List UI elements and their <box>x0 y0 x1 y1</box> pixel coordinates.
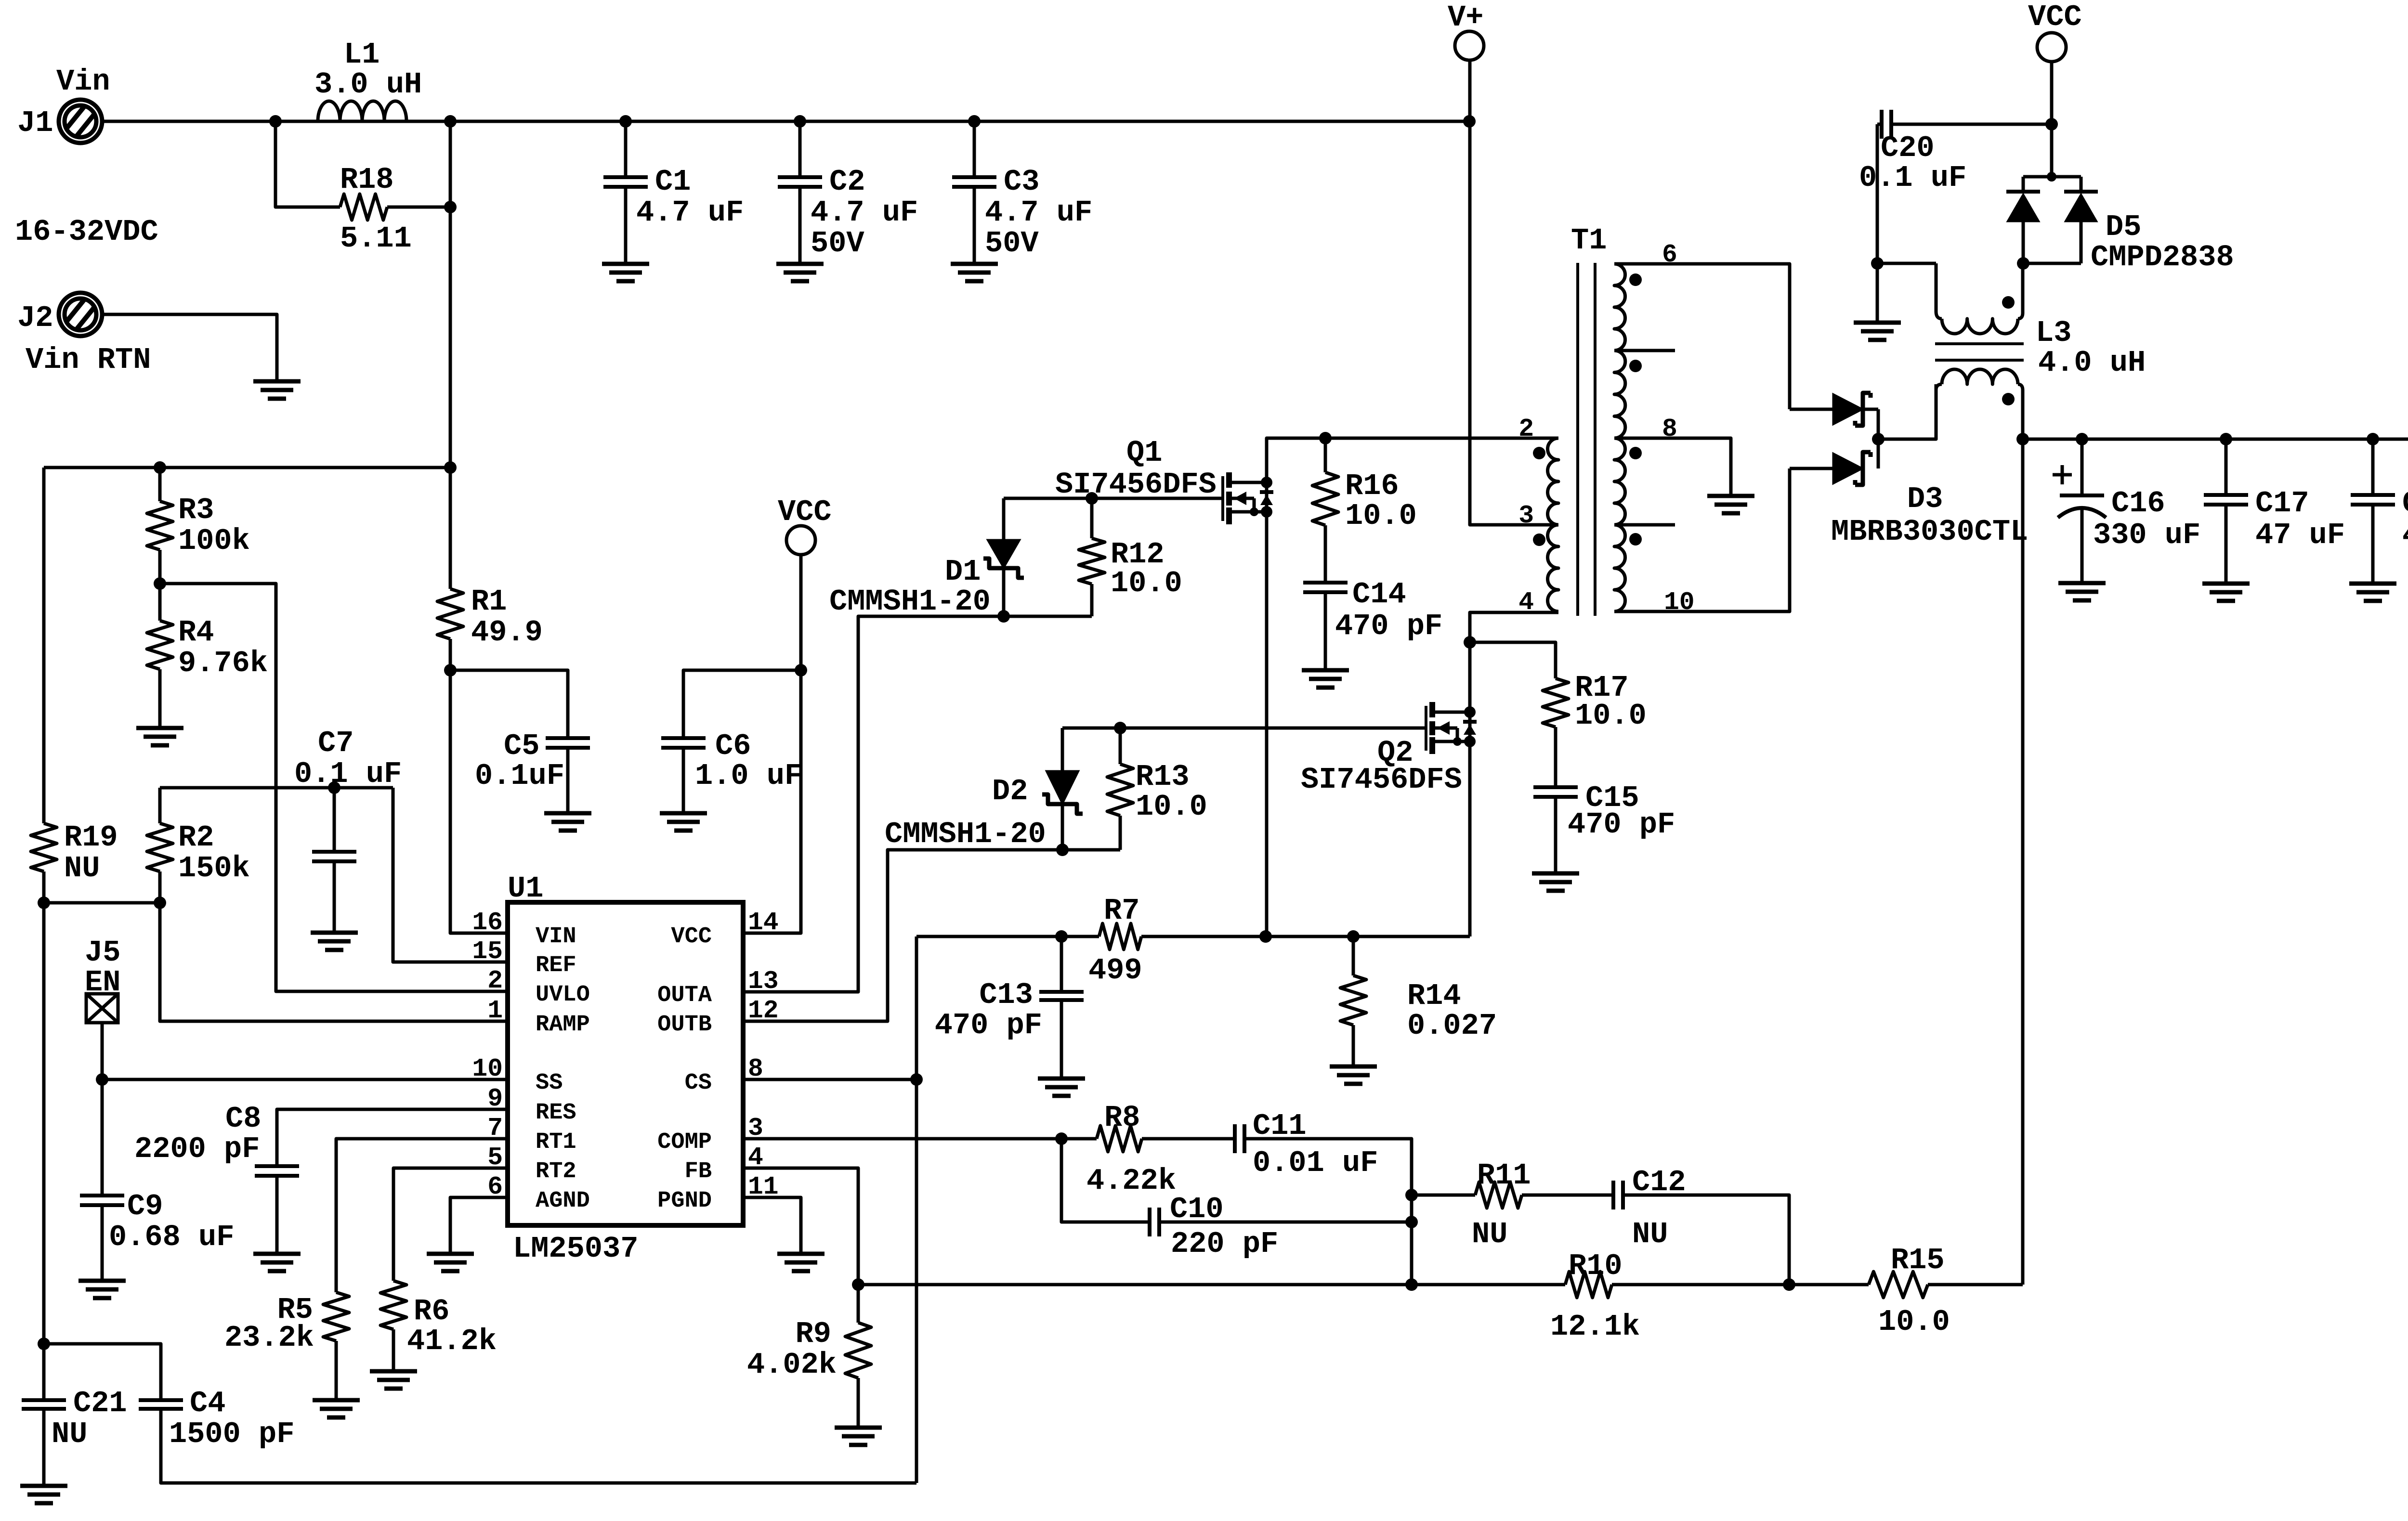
svg-text:100k: 100k <box>178 524 250 558</box>
svg-text:1500 pF: 1500 pF <box>169 1417 294 1451</box>
capacitor C6 <box>661 736 706 740</box>
ground C14 <box>1302 668 1349 673</box>
capacitor C9 <box>101 1079 104 1196</box>
svg-text:Vin: Vin <box>56 65 110 99</box>
wire J5 to SS <box>102 1023 508 1079</box>
node C17 <box>2220 433 2232 445</box>
node R12 top <box>1086 492 1098 505</box>
svg-text:220 pF: 220 pF <box>1171 1227 1278 1261</box>
resistor R2 <box>158 788 162 823</box>
resistor R14 <box>1352 936 1355 975</box>
wire FB riser <box>743 1168 858 1285</box>
svg-text:4.7 uF: 4.7 uF <box>636 195 744 230</box>
wire C20 left leg <box>1876 124 1879 263</box>
capacitor C17 <box>2225 439 2228 495</box>
ground R9 <box>835 1426 882 1430</box>
wire T1 tap upper <box>1614 349 1675 352</box>
ground R5 <box>313 1398 360 1403</box>
wire RT2 to R6 <box>393 1168 508 1281</box>
svg-text:J2: J2 <box>17 301 53 335</box>
node R18 right <box>444 201 457 213</box>
svg-text:10.0: 10.0 <box>1878 1305 1950 1339</box>
svg-text:50V: 50V <box>811 226 864 260</box>
svg-text:0.01 uF: 0.01 uF <box>1253 1146 1378 1180</box>
wire C4 to CS rail bottom <box>161 1409 916 1483</box>
node L1 left <box>269 115 282 128</box>
svg-text:10.0: 10.0 <box>1575 699 1647 733</box>
svg-text:R16: R16 <box>1345 469 1399 503</box>
diode D5 left <box>2022 177 2025 192</box>
svg-text:2200 pF: 2200 pF <box>134 1132 260 1166</box>
svg-text:16: 16 <box>472 908 503 937</box>
capacitor C1 <box>624 121 628 177</box>
resistor R19 <box>31 823 57 871</box>
node D3 cathode <box>1872 433 1885 445</box>
svg-text:FB: FB <box>685 1159 712 1184</box>
svg-text:41.2k: 41.2k <box>407 1324 497 1358</box>
wire AGND to ground <box>450 1197 508 1254</box>
svg-text:0.1 uF: 0.1 uF <box>294 757 402 791</box>
node C1 <box>619 115 632 128</box>
svg-text:CS: CS <box>685 1070 712 1096</box>
svg-text:4.02k: 4.02k <box>747 1348 837 1382</box>
wire R15 riser <box>2021 439 2025 1285</box>
transformer T1 primary winding lower <box>1548 525 1559 611</box>
svg-text:L1: L1 <box>344 38 380 72</box>
svg-text:C13: C13 <box>979 978 1033 1012</box>
inductor L3 upper dot <box>2002 296 2015 309</box>
node R14 top <box>1347 930 1360 943</box>
svg-text:1.0 uF: 1.0 uF <box>695 759 802 793</box>
node C21/C4 <box>38 1338 50 1350</box>
wire J1 to L1 node <box>100 120 1469 123</box>
svg-text:SI7456DFS: SI7456DFS <box>1301 763 1462 797</box>
capacitor C3 <box>973 121 976 177</box>
wire Q1 source <box>1265 512 1269 936</box>
svg-text:C18: C18 <box>2402 486 2408 520</box>
svg-text:R13: R13 <box>1136 760 1190 794</box>
svg-text:4: 4 <box>1518 588 1534 617</box>
svg-text:10.0: 10.0 <box>1345 499 1417 533</box>
wire D5 bottom bar <box>2023 262 2081 265</box>
wire R8 to C11 <box>1142 1137 1235 1141</box>
diode D5 right <box>2080 177 2083 192</box>
svg-text:Q1: Q1 <box>1126 436 1162 470</box>
capacitor C13 <box>1060 936 1063 992</box>
node D2 cathode <box>1056 844 1069 856</box>
svg-text:C8: C8 <box>225 1102 261 1136</box>
ground C2 <box>776 262 824 266</box>
svg-text:Vin RTN: Vin RTN <box>26 343 151 377</box>
ground C7 <box>311 931 358 935</box>
svg-text:OUTA: OUTA <box>657 983 712 1008</box>
resistor R5 <box>323 1292 349 1341</box>
node C13 tap <box>1055 930 1068 943</box>
wire R16 to C14 <box>1324 525 1327 583</box>
wire output rail <box>2023 438 2408 441</box>
wire J2 to ground <box>100 314 277 381</box>
wire RES to C8 <box>277 1109 508 1166</box>
svg-text:16-32VDC: 16-32VDC <box>15 215 158 249</box>
wire D5 top bar <box>2023 175 2081 179</box>
resistor R11 <box>1475 1182 1522 1208</box>
ground C15 <box>1532 871 1579 876</box>
capacitor C14 <box>1303 581 1348 585</box>
svg-text:VCC: VCC <box>778 495 832 529</box>
node D1 cathode <box>997 610 1010 623</box>
resistor R15 <box>1869 1272 1928 1298</box>
ground R14 <box>1330 1065 1377 1069</box>
wire R4 to ground <box>158 669 162 728</box>
svg-text:0.68 uF: 0.68 uF <box>109 1220 234 1254</box>
svg-text:U1: U1 <box>508 871 543 906</box>
wire C10 to corner <box>1159 1221 1412 1224</box>
wire T1 tap lower <box>1614 523 1675 527</box>
net flag V+ <box>1455 31 1484 60</box>
wire Q2 source corner <box>1468 935 1472 938</box>
wire R3-R4 <box>158 550 162 621</box>
wire R18 right branch <box>387 206 450 209</box>
svg-text:EN: EN <box>85 965 120 1000</box>
wire Q2 drain to T1 pin4 <box>1470 612 1558 712</box>
wire C6 branch <box>683 670 801 738</box>
svg-text:R18: R18 <box>340 163 394 197</box>
transformer T1 secondary dots <box>1629 273 1642 286</box>
node R13 top <box>1114 722 1126 734</box>
svg-text:T1: T1 <box>1571 223 1607 258</box>
ground T1 pin8 <box>1707 494 1754 498</box>
ground C13 <box>1038 1077 1085 1081</box>
svg-text:VCC: VCC <box>671 924 712 949</box>
svg-text:9.76k: 9.76k <box>178 646 268 680</box>
node FB/R9 <box>852 1278 864 1291</box>
svg-text:SI7456DFS: SI7456DFS <box>1055 468 1217 502</box>
svg-text:0.027: 0.027 <box>1407 1009 1497 1043</box>
wire ground junction to L3 <box>1877 262 1936 265</box>
node R11 row <box>1405 1189 1418 1201</box>
diode D1 <box>1002 498 1006 540</box>
wire R5 to ground <box>335 1341 338 1400</box>
wire OUTA riser <box>743 616 1092 992</box>
svg-text:COMP: COMP <box>657 1130 712 1155</box>
capacitor C8 <box>255 1164 299 1168</box>
svg-text:4.0 uH: 4.0 uH <box>2038 346 2146 380</box>
inductor L3 lower winding <box>1942 369 2018 384</box>
wire R19 bottom <box>42 871 46 1400</box>
svg-text:V+: V+ <box>1448 0 1483 35</box>
wire R7 to sources <box>1141 935 1470 938</box>
resistor R8 <box>1097 1126 1142 1152</box>
svg-text:C9: C9 <box>127 1189 163 1223</box>
capacitor C10 <box>1148 1208 1152 1236</box>
connector J5 <box>86 994 118 1023</box>
node C5 tap <box>444 664 457 676</box>
ground J2 <box>253 379 301 384</box>
wire Q1 gate <box>1004 497 1223 500</box>
svg-text:4.7 uF: 4.7 uF <box>985 195 1092 230</box>
node V+ bus <box>1463 115 1476 128</box>
svg-text:D5: D5 <box>2106 210 2141 244</box>
svg-text:VCC: VCC <box>2028 0 2082 34</box>
svg-text:RES: RES <box>536 1100 576 1126</box>
wire Q2 source <box>1468 741 1472 936</box>
capacitor C20 <box>1877 123 1882 126</box>
wire R11 to C12 <box>1522 1194 1613 1197</box>
ground C21 <box>20 1484 67 1488</box>
resistor R10 <box>1565 1272 1612 1298</box>
node Q1 source junction <box>1259 930 1272 943</box>
svg-text:0.1 uF: 0.1 uF <box>1859 161 1966 195</box>
capacitor C16 polarized <box>2081 439 2084 495</box>
wire R10 to R15 <box>1612 1283 1869 1287</box>
ground C20 <box>1854 321 1901 325</box>
svg-text:2: 2 <box>487 966 503 995</box>
wire R10 row left <box>858 1283 1565 1287</box>
svg-text:VIN: VIN <box>536 924 576 949</box>
svg-text:CMPD2838: CMPD2838 <box>2091 240 2234 274</box>
svg-text:C14: C14 <box>1352 577 1406 611</box>
ground AGND <box>427 1252 474 1256</box>
wire CS riser <box>915 936 918 1483</box>
capacitor C11 <box>1233 1124 1237 1153</box>
wire R1 to VIN pin <box>450 639 508 933</box>
wire R2 to RAMP <box>160 871 508 1021</box>
svg-text:R19: R19 <box>64 820 118 855</box>
wire R19-R2 bottom link <box>44 901 160 905</box>
node C20 tap <box>2045 118 2058 130</box>
node R19/R2 bottom <box>38 897 50 909</box>
wire R2 top rail <box>160 786 393 790</box>
ground PGND <box>777 1252 824 1256</box>
capacitor C7 <box>333 788 336 852</box>
node C3 <box>968 115 981 128</box>
svg-text:NU: NU <box>1472 1217 1507 1251</box>
transistor Q1 <box>1221 476 1224 521</box>
wire R11 row <box>1412 1194 1475 1197</box>
node R17 tap <box>1464 636 1476 649</box>
wire T1 pin8 to ground <box>1614 438 1731 496</box>
ground C3 <box>951 262 998 266</box>
svg-text:3.0 uH: 3.0 uH <box>314 67 422 102</box>
svg-text:PGND: PGND <box>657 1188 712 1214</box>
node C10 row <box>1405 1216 1418 1228</box>
label C16 plus <box>2053 465 2072 484</box>
diode D3 lower <box>1790 467 1833 470</box>
svg-text:R14: R14 <box>1407 979 1461 1013</box>
capacitor C18 <box>2371 439 2375 495</box>
capacitor C21 <box>42 1399 46 1402</box>
node C2 <box>794 115 806 128</box>
ground C9 <box>79 1279 126 1283</box>
svg-text:470 pF: 470 pF <box>1335 609 1442 643</box>
wire R6 to ground <box>392 1329 395 1371</box>
ground C17 <box>2202 582 2250 586</box>
ground C8 <box>253 1252 301 1256</box>
transistor Q2 <box>1425 706 1427 751</box>
net flag VCC mid <box>786 526 815 555</box>
node D5 top <box>2047 172 2056 182</box>
wire C11 to corner <box>1244 1139 1412 1285</box>
resistor R7 <box>1099 923 1141 949</box>
svg-text:470 pF: 470 pF <box>1568 807 1675 842</box>
svg-text:L3: L3 <box>2036 316 2071 350</box>
svg-text:12.1k: 12.1k <box>1550 1310 1640 1344</box>
svg-text:4.22k: 4.22k <box>1086 1164 1176 1198</box>
svg-text:RAMP: RAMP <box>536 1012 590 1038</box>
transformer T1 primary winding upper <box>1548 438 1559 525</box>
node CS pin tap <box>910 1073 923 1086</box>
resistor R1 <box>437 589 463 639</box>
wire OUTB riser <box>743 850 1120 1021</box>
svg-text:SS: SS <box>536 1070 563 1096</box>
svg-text:470 pF: 470 pF <box>935 1008 1042 1042</box>
svg-text:C3: C3 <box>1004 165 1039 199</box>
node C20 ground junction <box>1871 257 1884 270</box>
capacitor C4 <box>139 1398 183 1402</box>
svg-text:R15: R15 <box>1891 1243 1945 1277</box>
svg-text:R11: R11 <box>1477 1158 1531 1193</box>
svg-text:C20: C20 <box>1881 131 1935 165</box>
svg-text:R3: R3 <box>178 493 214 527</box>
svg-text:49.9: 49.9 <box>471 615 543 650</box>
node R10 row <box>1405 1278 1418 1291</box>
svg-text:C4: C4 <box>190 1386 225 1420</box>
svg-text:5.11: 5.11 <box>340 221 412 256</box>
svg-text:330 uF: 330 uF <box>2093 518 2200 552</box>
net flag VCC right <box>2037 33 2066 62</box>
resistor R12 <box>1090 498 1094 538</box>
wire RT1 to R5 <box>336 1139 508 1292</box>
svg-text:0.1uF: 0.1uF <box>475 759 564 793</box>
svg-text:CMMSH1-20: CMMSH1-20 <box>829 585 991 619</box>
ground R6 <box>370 1369 417 1374</box>
ground C5 <box>544 811 591 816</box>
wire C10 branch <box>1061 1139 1150 1222</box>
wire COMP row <box>743 1137 1097 1141</box>
svg-text:RT1: RT1 <box>536 1130 576 1155</box>
resistor R6 <box>380 1281 406 1329</box>
svg-text:NU: NU <box>1632 1217 1668 1251</box>
svg-text:R10: R10 <box>1569 1249 1623 1283</box>
svg-text:D3: D3 <box>1907 482 1943 516</box>
svg-text:15: 15 <box>472 937 503 966</box>
node R3/R4 <box>154 577 166 590</box>
svg-text:R6: R6 <box>414 1294 449 1328</box>
wire input bus vertical <box>449 121 452 589</box>
transformer T1 core <box>1576 263 1579 616</box>
node C6 tap <box>795 664 807 676</box>
diode D2 <box>1061 728 1064 771</box>
svg-text:150k: 150k <box>178 851 250 885</box>
svg-text:R8: R8 <box>1104 1101 1140 1135</box>
svg-text:UVLO: UVLO <box>536 982 590 1008</box>
node C12/R10 <box>1783 1278 1795 1291</box>
inductor L3 core <box>1935 342 2024 345</box>
svg-text:D1: D1 <box>945 555 981 589</box>
node C7 top <box>328 781 340 794</box>
svg-text:CMMSH1-20: CMMSH1-20 <box>885 817 1046 851</box>
wire T1 pin10 <box>1614 468 1790 611</box>
resistor R3 <box>158 468 162 501</box>
svg-text:C21: C21 <box>73 1386 127 1420</box>
svg-text:C6: C6 <box>715 729 751 763</box>
wire D3 to L3 <box>1878 384 1936 439</box>
wire UVLO sense <box>160 584 508 991</box>
svg-text:1: 1 <box>487 996 503 1025</box>
node R16 top <box>1319 432 1332 444</box>
svg-text:LM25037: LM25037 <box>513 1232 638 1266</box>
resistor R18 <box>340 194 387 220</box>
svg-text:10.0: 10.0 <box>1111 566 1182 600</box>
capacitor C12 <box>1611 1181 1615 1209</box>
svg-text:AGND: AGND <box>536 1188 590 1214</box>
wire Q2 gate <box>1062 727 1426 730</box>
inductor L3 lower dot <box>2002 393 2015 405</box>
resistor R16 <box>1324 438 1327 472</box>
wire R19 drop <box>42 468 46 823</box>
wire R19-R3 top rail <box>44 466 450 469</box>
wire R15 to riser <box>1928 1283 2023 1287</box>
ground C1 <box>602 262 649 266</box>
node SS/C9 <box>96 1073 108 1086</box>
transformer T1 primary dot lower <box>1533 533 1545 546</box>
wire T1 pin3 to V+ <box>1470 61 1558 525</box>
svg-text:C1: C1 <box>655 165 691 199</box>
node L1 right <box>444 115 457 128</box>
svg-text:NU: NU <box>64 851 100 885</box>
wire CS rail <box>916 935 1099 938</box>
ground C16 <box>2058 581 2106 585</box>
ground C18 <box>2349 582 2396 586</box>
resistor R13 <box>1119 728 1122 764</box>
svg-text:50V: 50V <box>985 226 1039 260</box>
resistor R9 <box>857 1285 860 1323</box>
svg-text:NU: NU <box>52 1417 87 1451</box>
svg-text:C2: C2 <box>829 165 865 199</box>
connector J2 <box>59 293 102 336</box>
svg-text:10.0: 10.0 <box>1136 790 1207 824</box>
wire to ground stub <box>1876 263 1879 323</box>
svg-text:J5: J5 <box>85 936 120 970</box>
wire L1-R18 left branch <box>275 121 340 207</box>
connector J1 <box>59 100 102 143</box>
node R3 top <box>154 461 166 474</box>
svg-text:23.2k: 23.2k <box>224 1321 314 1355</box>
svg-text:47 uF: 47 uF <box>2402 518 2408 552</box>
wire VCC to pin14 <box>743 555 801 933</box>
ground R4 <box>136 726 183 730</box>
svg-text:14: 14 <box>748 908 779 937</box>
node R2 bottom <box>154 897 166 909</box>
svg-text:C5: C5 <box>504 729 539 763</box>
IC U1 box <box>508 902 743 1225</box>
svg-text:REF: REF <box>536 953 576 978</box>
node bus/R3 rail <box>444 461 457 474</box>
inductor L3 upper winding <box>1935 263 1938 312</box>
svg-text:R2: R2 <box>178 820 214 855</box>
node D5 anode/L3 <box>2017 257 2029 270</box>
wire C5 branch <box>450 670 568 738</box>
wire Q1 drain to T1 pin2 <box>1267 438 1558 482</box>
svg-text:R7: R7 <box>1104 894 1139 928</box>
capacitor C2 <box>798 121 802 177</box>
ground C6 <box>660 811 707 816</box>
svg-text:C7: C7 <box>318 726 353 760</box>
wire PGND <box>743 1197 801 1254</box>
wire C12 to R10 row <box>1623 1195 1789 1285</box>
wire REF branch <box>393 788 508 962</box>
svg-text:RT2: RT2 <box>536 1159 576 1184</box>
